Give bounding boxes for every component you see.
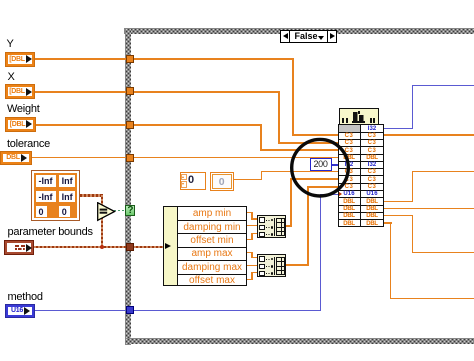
- tunnel parameter bounds: [126, 243, 135, 252]
- greyed numeric 0 constant: [210, 172, 234, 191]
- bundle cluster node body: [338, 124, 384, 227]
- selector tunnel ?: [125, 205, 135, 216]
- wire method into bundle row10: [320, 194, 338, 195]
- bundle output wire DBL row12: [384, 208, 474, 209]
- bundle row13 DBL: [338, 213, 360, 219]
- bundle row7: [338, 169, 360, 175]
- tunnel tolerance: [126, 154, 134, 162]
- wire method vertical: [320, 194, 321, 311]
- constant 200: [310, 158, 332, 171]
- label tolerance: [7, 139, 50, 150]
- terminal tolerance DBL: [1, 152, 31, 165]
- terminal Y [DBL]: [6, 53, 34, 66]
- bundle output wire I32: [383, 128, 413, 129]
- wire tolerance: [31, 157, 338, 158]
- annotation circle around 200: [288, 136, 352, 200]
- junction on parameter bounds wire: [100, 245, 104, 249]
- label parameter bounds: [8, 227, 93, 238]
- numeric 0 with increment: [180, 172, 206, 190]
- bundle row1 grey cell: [339, 125, 360, 131]
- wire X vertical: [278, 91, 280, 144]
- bundle node 1 output wire: [286, 225, 292, 227]
- tunnel method: [126, 306, 134, 314]
- terminal method U16: [6, 305, 34, 318]
- terminal Weight [DBL]: [6, 118, 35, 131]
- wire Weight vertical: [260, 124, 262, 151]
- equal? node output wire (boolean dashed): [114, 210, 126, 211]
- input arrow row10: [339, 192, 342, 196]
- bundle output wire DBL row13: [384, 215, 414, 216]
- bundle row14 DBL: [338, 221, 360, 227]
- wire damping min: [247, 225, 257, 226]
- bundle output wire DBL row14: [384, 222, 392, 223]
- bundle row8: [338, 177, 360, 183]
- case structure bottom border: [125, 338, 474, 344]
- bundle row3: [338, 140, 360, 146]
- bundle node 2 output wire: [286, 264, 309, 266]
- bundle row5 DBL: [338, 155, 360, 161]
- tunnel Y: [126, 55, 134, 63]
- wire Weight into bundle row4: [260, 149, 338, 151]
- wire offset max: [247, 279, 252, 280]
- wire method horizontal: [33, 310, 321, 311]
- wire Weight horizontal: [34, 124, 262, 126]
- cluster constant of bounds: [31, 170, 80, 221]
- wire X horizontal: [33, 91, 279, 93]
- wire offset min: [247, 239, 252, 240]
- wire X into bundle row3: [278, 142, 339, 144]
- bundle row4: [338, 148, 360, 154]
- bundle row6 I32: [338, 162, 360, 168]
- wire damping max: [247, 265, 257, 266]
- wire amp max: [247, 252, 252, 253]
- case structure left border: [125, 28, 131, 345]
- wire parameter bounds: [32, 246, 163, 249]
- cluster constant wire branch vertical: [101, 194, 104, 247]
- bundle output wire DBL row11: [384, 201, 414, 202]
- bundle row11 DBL: [338, 199, 360, 205]
- unbundle by name node: [163, 206, 247, 286]
- tunnel Weight: [126, 121, 134, 129]
- case structure top border: [124, 28, 474, 34]
- constant 200 wire: [331, 164, 338, 166]
- label X: [8, 72, 15, 83]
- label Y: [7, 39, 14, 50]
- label method: [8, 292, 43, 303]
- bundle row12 DBL: [338, 206, 360, 212]
- tunnel X: [126, 87, 134, 95]
- bundle row lines: [338, 132, 384, 133]
- wire Y horizontal: [33, 58, 294, 60]
- bundle node 2 (max cluster): [257, 254, 287, 277]
- cluster constant wire branch horizontal: [80, 194, 102, 197]
- bundle cluster node header: [339, 108, 380, 125]
- bundle row1 I32: [361, 126, 383, 132]
- terminal X [DBL]: [6, 85, 34, 98]
- case selector label "False": [280, 30, 337, 43]
- wire Y vertical: [292, 58, 294, 137]
- bundle column separator: [360, 124, 361, 227]
- wire Y into bundle row2: [292, 134, 338, 136]
- bundle row9: [338, 184, 360, 190]
- equal? node: [97, 202, 116, 222]
- wire from greyed 0 constant: [233, 179, 262, 180]
- bundle output wire array (row2): [384, 134, 474, 136]
- label Weight: [7, 104, 40, 115]
- bundle row10 U16: [338, 191, 360, 197]
- wire amp min: [247, 212, 252, 213]
- bundle node 1 (min cluster): [257, 215, 287, 238]
- terminal parameter bounds cluster: [5, 241, 33, 254]
- bundle row2: [338, 133, 360, 139]
